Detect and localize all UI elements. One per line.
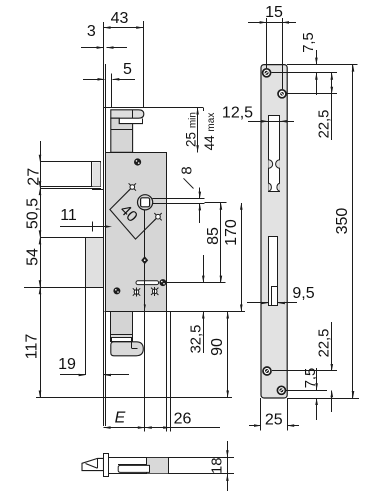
key bit capsule bbox=[136, 281, 159, 285]
wire: faceplate edge lines (side view) bbox=[103, 22, 105, 426]
aux bolt block (27) bbox=[41, 162, 101, 187]
dim 5 bbox=[83, 79, 105, 81]
wire: ext plate bottom bbox=[287, 398, 359, 400]
wire: ext 27 top bbox=[40, 161, 101, 163]
faceplate (section) bbox=[104, 454, 109, 477]
wire: ext line lever group bbox=[166, 282, 226, 284]
latchbolt head (side view) bbox=[111, 110, 144, 118]
svg-text:90: 90 bbox=[209, 338, 226, 356]
svg-text:18: 18 bbox=[210, 458, 226, 474]
follower (key spindle) bbox=[138, 195, 153, 210]
svg-text:85: 85 bbox=[205, 227, 222, 245]
svg-text:8: 8 bbox=[180, 166, 196, 174]
dim 32,5 bbox=[203, 255, 205, 283]
wire: short ledge line bbox=[92, 189, 104, 191]
svg-text:25: 25 bbox=[265, 412, 283, 429]
dimension chain line bbox=[40, 141, 42, 398]
wire: bottom extension line bbox=[36, 397, 232, 399]
wire: ext hole3 bbox=[272, 370, 337, 372]
deadlatch hook bolt bbox=[111, 342, 144, 356]
screw hole mark (cylinder) bbox=[130, 185, 135, 190]
wire: ext 27 bottom bbox=[40, 188, 101, 190]
dim 19 bbox=[60, 374, 86, 376]
deadlatch tail (side view) bbox=[111, 312, 133, 335]
dim 12,5 bbox=[248, 121, 294, 123]
svg-text:50,5: 50,5 bbox=[25, 198, 42, 229]
dim 85 bbox=[220, 203, 222, 283]
svg-text:12,5: 12,5 bbox=[222, 105, 253, 122]
dim 90 bbox=[227, 312, 229, 398]
deadlatch slot bbox=[112, 338, 132, 342]
dim E bbox=[104, 427, 220, 429]
svg-text:19: 19 bbox=[58, 356, 76, 373]
latchbolt notch bbox=[119, 118, 143, 123]
node: cylinder axis centre line bbox=[144, 210, 146, 432]
dim 43 bbox=[104, 27, 144, 29]
dim 8 bbox=[199, 188, 201, 199]
screw hole mark (cylinder) bbox=[156, 214, 161, 219]
main bolt block (54) bbox=[86, 237, 104, 287]
adjuster mark right bbox=[152, 289, 157, 294]
svg-text:15: 15 bbox=[265, 4, 283, 21]
svg-text:54: 54 bbox=[25, 248, 42, 266]
dim 7,5 top bbox=[316, 50, 318, 65]
latch slot (section) bbox=[118, 465, 149, 472]
svg-text:E: E bbox=[115, 410, 126, 427]
dim 22,5 top bbox=[331, 73, 333, 140]
wire: follower extension line bbox=[205, 202, 227, 204]
adjuster mark left bbox=[134, 290, 139, 295]
screw hole bottom bbox=[277, 386, 285, 394]
dim 25 min / 44 max bbox=[197, 108, 199, 153]
dark screw left bbox=[114, 288, 120, 294]
lock nose (top, side view) bbox=[104, 107, 203, 109]
cutout pinch lower bbox=[268, 183, 271, 191]
dim 350 bbox=[352, 65, 354, 398]
svg-text:22,5: 22,5 bbox=[317, 110, 333, 139]
screw hole top-left bbox=[263, 69, 271, 77]
cutout pinch upper bbox=[268, 160, 272, 169]
wire: ext plate top bbox=[287, 64, 357, 66]
dim 9,5 bbox=[247, 302, 268, 304]
svg-text:117: 117 bbox=[23, 334, 40, 360]
cylinder square 40 (diamond) bbox=[110, 187, 158, 239]
dim 15 bbox=[266, 18, 268, 68]
wire: key bit bars bbox=[153, 198, 205, 200]
svg-text:9,5: 9,5 bbox=[292, 285, 314, 302]
wire: 43-dim right extension / nose right edge bbox=[143, 21, 145, 108]
screw S1 bbox=[134, 159, 140, 165]
wire: ext hole2 bbox=[287, 93, 338, 95]
dark screw right bbox=[160, 280, 166, 286]
lock case bar (section) bbox=[109, 458, 228, 474]
svg-text:22,5: 22,5 bbox=[317, 329, 333, 358]
latch tip (section) bbox=[82, 458, 104, 470]
lever pivot screw bbox=[142, 257, 148, 264]
svg-text:32,5: 32,5 bbox=[189, 325, 205, 354]
wire: ext 54 bottom bbox=[24, 287, 99, 289]
svg-text:43: 43 bbox=[111, 10, 129, 27]
dim 11 bbox=[60, 226, 106, 228]
latchbolt tail (side view) bbox=[111, 118, 133, 152]
svg-text:3: 3 bbox=[87, 23, 96, 40]
bolt cutout (front view) bbox=[269, 237, 278, 306]
svg-text:7,5: 7,5 bbox=[301, 32, 317, 53]
deadlatch step bbox=[111, 335, 133, 342]
wire: body right second edge bbox=[170, 312, 172, 432]
latch cutout (front view) bbox=[269, 116, 280, 192]
dim 170 bbox=[241, 203, 243, 312]
wire: bolt plane extension line bbox=[85, 286, 87, 375]
dim 18 bbox=[227, 441, 229, 457]
svg-text:170: 170 bbox=[223, 219, 240, 246]
dim 22,5 bottom bbox=[331, 322, 333, 371]
svg-text:7,5: 7,5 bbox=[303, 368, 319, 389]
dim 3 bbox=[81, 47, 104, 49]
faceplate front view bbox=[261, 65, 287, 398]
dim 25 bbox=[260, 398, 262, 431]
centre line end tick bbox=[144, 305, 146, 310]
wire: ext hole1 bbox=[272, 72, 338, 74]
wire: ext hole4 bbox=[286, 390, 327, 392]
screw hole bottom-left bbox=[263, 367, 271, 375]
lock body (side view) bbox=[106, 153, 167, 312]
svg-text:11: 11 bbox=[60, 207, 77, 224]
svg-text:350: 350 bbox=[334, 208, 351, 235]
wire: block top extension bbox=[40, 237, 86, 239]
screw hole upper bbox=[278, 90, 286, 98]
dim 7,5 bottom bbox=[316, 368, 318, 390]
svg-text:5: 5 bbox=[123, 61, 132, 78]
svg-text:26: 26 bbox=[174, 411, 192, 428]
wire: body bottom extension bbox=[105, 311, 246, 313]
svg-text:27: 27 bbox=[25, 168, 42, 186]
